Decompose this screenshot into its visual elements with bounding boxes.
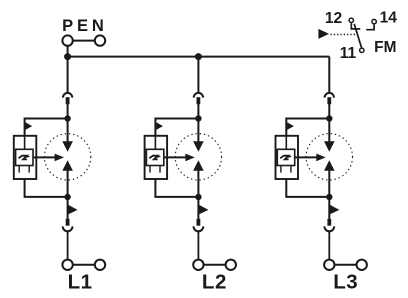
pin stub left under trigger box — [280, 166, 282, 173]
monitoring / disconnection device box — [14, 136, 37, 179]
trigger arrow into spark gap — [33, 154, 64, 162]
wire branch bottom return — [155, 179, 198, 197]
FM actuator dotted linkage — [331, 34, 357, 36]
pin stub right under trigger box — [290, 166, 292, 173]
spark gap electrode bottom — [193, 160, 204, 171]
terminal L3 link wire — [335, 264, 357, 266]
plug-in socket contact (upper disconnect point) — [325, 93, 334, 98]
svg-text:11: 11 — [340, 45, 357, 62]
disconnect flag on main path — [68, 205, 78, 215]
terminal L1 right circle — [95, 260, 105, 270]
junction node bottom of F3 — [326, 194, 332, 200]
pin stub right under trigger box — [159, 166, 161, 173]
bus wire PEN rail — [68, 56, 330, 58]
svg-text:PEN: PEN — [62, 17, 108, 35]
spark gap electrode top — [62, 141, 73, 151]
svg-text:12: 12 — [325, 10, 343, 27]
terminal L2 right circle — [226, 260, 236, 270]
trigger arrow into spark gap — [295, 154, 326, 162]
junction node top of F1 — [64, 115, 70, 121]
spark gap electrode bottom — [324, 160, 335, 171]
FM contact 11 circle — [360, 48, 364, 52]
monitoring / disconnection device box — [145, 136, 168, 179]
pin stub right under trigger box — [28, 166, 30, 173]
disconnect flag on branch — [25, 122, 32, 130]
trigger arrow into spark gap — [164, 154, 195, 162]
terminal PEN right circle — [95, 35, 105, 45]
spark gap electrode bottom — [62, 160, 73, 171]
spark gap circle (dashed) F2 — [175, 134, 221, 180]
plug-in socket contact (upper disconnect point) — [63, 93, 72, 98]
wire node to lower plug contact — [197, 197, 199, 219]
wire branch to monitoring box — [155, 119, 198, 136]
plug-in pin contact (upper disconnect point) — [197, 97, 201, 104]
plug-in socket contact (lower disconnect point) — [63, 226, 73, 231]
spark gap circle (dashed) F1 — [44, 134, 90, 180]
wire plug to node — [328, 104, 330, 119]
FM actuator flag triangle — [318, 29, 329, 39]
terminal L2 left circle — [193, 260, 203, 270]
trigger circuit box — [146, 149, 163, 165]
svg-text:FM: FM — [374, 39, 396, 56]
terminal PEN link wire — [73, 40, 95, 42]
FM contact 12 bracket — [351, 23, 360, 29]
disconnect flag on branch — [156, 122, 163, 130]
terminal PEN left circle — [62, 35, 72, 45]
wire socket to terminal L3 — [328, 231, 330, 259]
wire socket to terminal L1 — [67, 231, 69, 259]
svg-text:L2: L2 — [202, 270, 227, 293]
surge bolt icon inside trigger box — [19, 155, 31, 159]
wire node to lower plug contact — [328, 197, 330, 219]
plug-in socket contact (lower disconnect point) — [324, 226, 334, 231]
wire node to spark gap — [67, 119, 69, 142]
wire stub into trigger box — [24, 136, 26, 150]
plug-in pin contact (lower disconnect point) — [66, 219, 70, 226]
plug-in socket contact (lower disconnect point) — [194, 226, 204, 231]
terminal L3 right circle — [357, 260, 367, 270]
FM contact 14 bracket — [366, 24, 374, 29]
wire stub into trigger box — [154, 136, 156, 150]
wire spark gap to bottom node — [197, 171, 199, 198]
wire node to lower plug contact — [67, 197, 69, 219]
wire socket to terminal L2 — [197, 231, 199, 259]
wire plug to node — [197, 104, 199, 119]
plug-in socket contact (upper disconnect point) — [194, 93, 203, 98]
pin stub left under trigger box — [149, 166, 151, 173]
svg-text:L1: L1 — [68, 270, 93, 293]
svg-text:14: 14 — [380, 10, 398, 27]
wire plug to node — [67, 104, 69, 119]
wire PEN to bus — [67, 46, 69, 57]
pin stub left under trigger box — [18, 166, 20, 173]
spark gap circle (dashed) F3 — [306, 134, 352, 180]
trigger circuit box — [277, 149, 294, 165]
plug-in pin contact (lower disconnect point) — [327, 219, 331, 226]
spark gap electrode top — [193, 141, 204, 151]
wire branch bottom return — [286, 179, 329, 197]
wire bus to plug contact (L3 path) — [328, 57, 330, 94]
wire node to spark gap — [328, 119, 330, 142]
wire spark gap to bottom node — [328, 171, 330, 198]
junction bus node 2 — [195, 53, 202, 60]
FM wiper contact arm — [354, 24, 361, 48]
FM contact 12 circle — [349, 18, 353, 22]
plug-in pin contact (upper disconnect point) — [66, 97, 70, 104]
wire stub into trigger box — [285, 136, 287, 150]
monitoring / disconnection device box — [276, 136, 299, 179]
wire bus to plug contact (L2 path) — [197, 57, 199, 94]
junction bus node 1 — [64, 53, 71, 60]
trigger circuit box — [16, 149, 33, 165]
FM contact 14 circle — [372, 19, 376, 23]
disconnect flag on main path — [199, 205, 209, 215]
spark gap electrode top — [324, 141, 335, 151]
wire bus to plug contact (L1 path) — [67, 57, 69, 94]
wire branch to monitoring box — [286, 119, 329, 136]
junction node bottom of F1 — [64, 194, 70, 200]
terminal L1 link wire — [73, 264, 95, 266]
plug-in pin contact (upper disconnect point) — [327, 97, 331, 104]
surge bolt icon inside trigger box — [280, 155, 292, 159]
wire branch to monitoring box — [25, 119, 68, 136]
wire node to spark gap — [197, 119, 199, 142]
junction node top of F3 — [326, 115, 332, 121]
terminal L1 left circle — [62, 260, 72, 270]
terminal L3 left circle — [324, 260, 334, 270]
junction node top of F2 — [195, 115, 201, 121]
disconnect flag on branch — [287, 122, 294, 130]
junction node bottom of F2 — [195, 194, 201, 200]
plug-in pin contact (lower disconnect point) — [197, 219, 201, 226]
surge bolt icon inside trigger box — [149, 155, 161, 159]
wire spark gap to bottom node — [67, 171, 69, 198]
terminal L2 link wire — [204, 264, 226, 266]
wire branch bottom return — [25, 179, 68, 197]
disconnect flag on main path — [330, 205, 340, 215]
svg-text:L3: L3 — [333, 270, 358, 293]
